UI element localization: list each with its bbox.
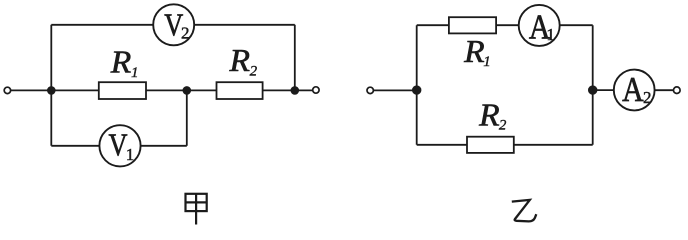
terminal right (circuit 甲) [313,87,319,93]
svg-text:2: 2 [643,88,652,107]
wire node C to R2 [187,89,217,91]
wire V2 to right vertical [194,24,295,26]
voltmeter V1 [99,125,140,166]
svg-text:R: R [463,34,485,69]
wire R2 to right vertical bottom [514,144,593,146]
wire left vertical [50,25,52,146]
svg-text:V: V [109,126,128,162]
caption 甲 [186,194,207,225]
svg-text:1: 1 [126,145,135,164]
label R2 (circuit 乙) [478,97,507,133]
svg-text:2: 2 [250,64,258,80]
wire right vertical [294,25,296,91]
node D junction [412,85,421,94]
svg-text:1: 1 [546,25,555,44]
ammeter A2 [614,70,655,111]
wire node B to right terminal [295,89,313,91]
wire bottom left to V1 [51,145,99,147]
node B junction [291,86,300,95]
svg-text:A: A [622,70,644,109]
resistor R2 (circuit 甲) [217,82,263,99]
node C junction [183,86,192,95]
wire R1 to node C [146,89,187,91]
terminal left (circuit 乙) [367,87,373,93]
voltmeter V2 [153,4,194,45]
terminal left (circuit 甲) [4,87,10,93]
wire node E to A2 [593,89,614,91]
node E junction [588,85,597,94]
wire R1 to A1 [496,24,519,26]
caption 乙 [512,200,537,222]
svg-text:R: R [478,97,500,132]
wire top left to R1 [417,24,449,26]
wire R2 to node B [263,89,295,91]
wire V1 to node C vertical [141,145,187,147]
label R1 [110,45,139,82]
svg-text:1: 1 [483,54,491,70]
wire left vertical (circuit 乙) [416,25,418,145]
wire bottom left to R2 (circuit 乙) [417,144,467,146]
resistor R1 (circuit 甲) [99,82,146,99]
wire terminal to node A [11,89,52,91]
wire A2 to right terminal [655,89,673,91]
wire right vertical (circuit 乙) [592,25,594,145]
svg-text:2: 2 [181,23,190,42]
resistor R1 (circuit 乙) [449,17,496,33]
svg-text:R: R [228,43,250,78]
wire node A to R1 [51,89,99,91]
svg-text:1: 1 [131,65,139,81]
terminal right (circuit 乙) [674,87,681,94]
node A junction [47,86,56,95]
wire node C down to V1 branch [186,90,188,145]
wire top left to V2 [51,24,153,26]
label R1 (circuit 乙) [463,34,491,70]
wire terminal to node D [374,89,417,91]
ammeter A1 [519,5,560,47]
resistor R2 (circuit 乙) [467,137,514,153]
label R2 [228,43,257,80]
wire A1 to right vertical [560,24,593,26]
svg-text:2: 2 [499,118,507,134]
svg-text:R: R [110,45,132,80]
